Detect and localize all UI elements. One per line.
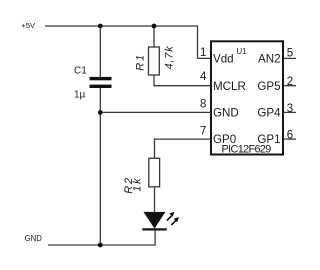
svg-text:3: 3: [287, 103, 293, 115]
svg-text:6: 6: [287, 130, 293, 142]
svg-text:4,7k: 4,7k: [164, 46, 176, 70]
svg-text:4: 4: [200, 71, 207, 83]
svg-text:U1: U1: [236, 47, 247, 56]
svg-text:GND: GND: [25, 234, 43, 243]
svg-text:Vdd: Vdd: [213, 53, 234, 66]
svg-text:5: 5: [287, 47, 293, 59]
svg-text:R1: R1: [135, 53, 147, 71]
svg-text:2: 2: [287, 76, 293, 88]
svg-text:GP4: GP4: [257, 106, 281, 119]
svg-text:1k: 1k: [132, 177, 144, 192]
svg-text:+5V: +5V: [21, 21, 36, 30]
svg-text:1: 1: [200, 47, 206, 59]
svg-text:C1: C1: [74, 65, 87, 76]
svg-text:8: 8: [200, 99, 206, 111]
svg-text:1µ: 1µ: [74, 90, 86, 101]
svg-text:7: 7: [200, 125, 206, 137]
svg-text:GND: GND: [213, 106, 239, 119]
svg-text:GP5: GP5: [257, 80, 280, 93]
svg-text:AN2: AN2: [258, 53, 281, 66]
svg-text:PIC12F629: PIC12F629: [222, 144, 272, 156]
svg-text:MCLR: MCLR: [213, 80, 246, 93]
